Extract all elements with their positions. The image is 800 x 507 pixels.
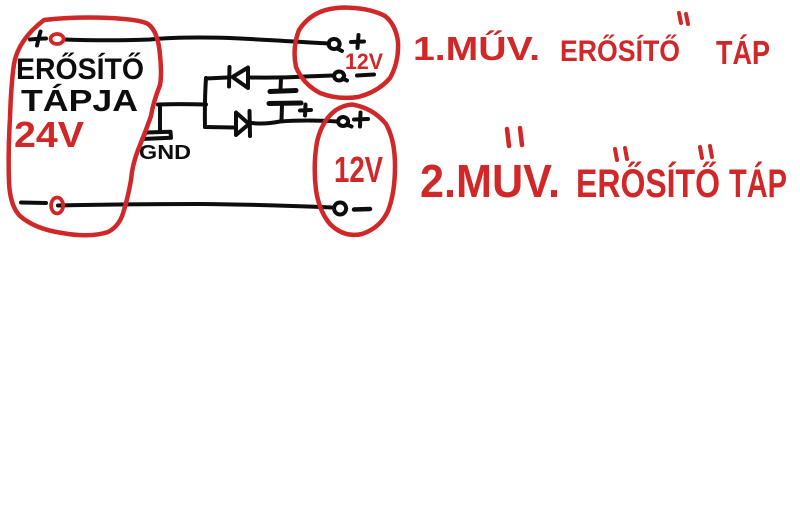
terminal + of supply 2 xyxy=(338,117,351,127)
diode D1 triangle xyxy=(233,68,249,89)
svg-text:TÁP: TÁP xyxy=(729,161,787,206)
wire from bus to D2 xyxy=(205,125,234,130)
ground symbol xyxy=(142,132,171,139)
red circle around supply 1 terminals xyxy=(295,8,399,98)
capacitor C1 top plate xyxy=(270,91,296,92)
minus label supply 2 xyxy=(354,207,370,212)
red ellipse around supply 2 terminals xyxy=(315,105,395,235)
diode D2 triangle xyxy=(236,113,249,136)
node + polarity mark top-left xyxy=(30,32,46,46)
wire junction to bus xyxy=(158,102,206,106)
wire from D2 to + terminal of supply 2 xyxy=(252,121,339,124)
svg-text:GND: GND xyxy=(139,142,191,164)
wire from top diode to - terminal of supply 1 xyxy=(250,76,333,78)
svg-text:1.MŰV.: 1.MŰV. xyxy=(413,30,540,67)
diode D2 cathode bar xyxy=(248,111,253,136)
wire from bus to D1 xyxy=(206,78,227,79)
svg-text:ERŐSÍTŐ: ERŐSÍTŐ xyxy=(560,34,680,68)
wire top rail xyxy=(64,38,329,44)
svg-text:TÁPJA: TÁPJA xyxy=(21,83,138,118)
diode D1 cathode bar xyxy=(227,67,232,87)
capacitor C1 plus polarity mark xyxy=(300,105,311,116)
wire down to ground xyxy=(158,105,162,132)
accent ticks above U line 2 xyxy=(507,128,522,146)
svg-text:24V: 24V xyxy=(14,114,84,155)
svg-text:ERŐSÍTŐ: ERŐSÍTŐ xyxy=(16,52,144,86)
plus label supply 2 xyxy=(354,113,368,127)
red ring terminal top-left xyxy=(51,34,64,44)
terminal + of supply 1 xyxy=(329,39,342,51)
capacitor C1 top stub xyxy=(279,78,284,90)
red ring terminal bottom-left xyxy=(51,198,63,214)
terminal - of supply 2 xyxy=(334,203,346,215)
svg-text:2.MUV.: 2.MUV. xyxy=(420,155,560,207)
red annotation blob around 24V supply xyxy=(9,18,161,236)
capacitor C1 bottom stub xyxy=(280,105,285,120)
svg-text:ERŐSÍTŐ: ERŐSÍTŐ xyxy=(576,160,720,206)
svg-text:12V: 12V xyxy=(334,149,383,190)
capacitor C1 bottom plate xyxy=(269,101,301,107)
svg-text:TÁP: TÁP xyxy=(716,34,770,71)
accent ticks above final O line 1 xyxy=(679,13,688,24)
plus label supply 1 xyxy=(351,35,364,48)
wire vertical bus left of diodes xyxy=(205,78,206,127)
minus label supply 1 xyxy=(357,75,374,76)
wire bottom rail xyxy=(21,203,332,208)
svg-text:12V: 12V xyxy=(345,49,383,74)
accent ticks above O letters line 2 xyxy=(615,146,712,160)
terminal - of supply 1 xyxy=(334,72,347,81)
